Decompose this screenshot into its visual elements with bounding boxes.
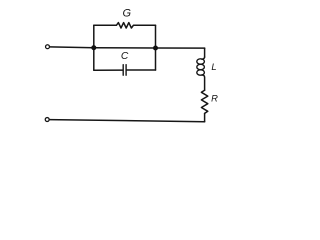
- svg-text:R: R: [211, 92, 218, 103]
- svg-text:G: G: [123, 7, 132, 19]
- svg-text:L: L: [211, 61, 216, 72]
- svg-text:C: C: [121, 51, 129, 62]
